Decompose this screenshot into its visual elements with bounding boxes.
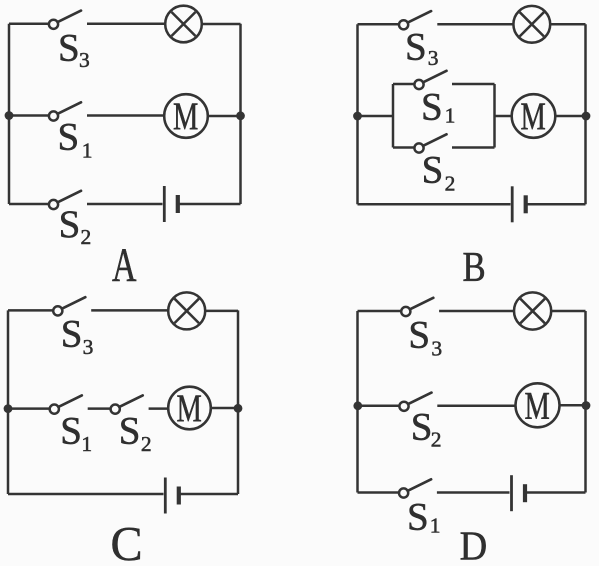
switch S1 (C): contact circle [50,405,59,414]
svg-text:S: S [58,116,80,159]
circuit B top branch: wire from S3 to lamp [437,23,513,26]
svg-text:S: S [407,495,429,538]
motor M (C): circle [168,387,211,430]
battery (A): long plate [163,186,166,222]
circuit C top branch: wire from S3 to lamp [91,309,168,312]
circuit B parallel bottom sub-branch: wire from S2 to box right [452,146,495,149]
lamp (B): cross stroke 1 [520,12,544,36]
switch S3 (B): arm blade [408,11,431,23]
junction node: circuit C right rail / middle branch [234,404,243,413]
switch S2 (B): contact circle [414,143,423,152]
svg-text:2: 2 [81,225,92,249]
circuit D middle branch: wire from left rail to switch S2 [358,405,400,408]
circuit C middle branch: wire between S1 and S2 [88,407,111,410]
circuit D top branch: wire from S3 to lamp [439,310,514,313]
junction node: circuit D left rail / middle branch [353,401,362,410]
svg-text:B: B [463,244,486,291]
svg-text:M: M [177,387,202,430]
circuit B middle branch: wire from motor to right rail [555,115,586,118]
circuit A bottom branch: wire from battery to right rail [178,203,241,206]
battery (C): long plate [164,478,167,514]
switch S2 (D): contact circle [399,402,408,411]
lamp (A): cross stroke 2 [172,12,196,36]
circuit A: left rail wire [8,24,11,204]
circuit A bottom branch: wire from left rail to switch S2 [9,203,49,206]
circuit B parallel top sub-branch: wire from S1 to box right [452,83,495,86]
switch S1 (B): contact circle [414,80,423,89]
circuit C top branch: wire from left rail to switch S3 [8,309,53,312]
lamp (A): cross stroke 1 [172,12,196,36]
circuit B parallel top sub-branch: wire to switch S1 [393,83,415,86]
motor M (A): circle [164,94,208,138]
lamp (B): circle [513,6,550,43]
svg-text:A: A [112,239,137,292]
switch S2 (B): arm blade [423,134,446,146]
svg-text:S: S [61,312,83,355]
switch S1 (A): contact circle [49,111,58,120]
lamp (D): cross stroke 1 [520,299,545,324]
circuit D bottom branch: wire from S1 to battery [437,491,510,494]
switch S1 (B): arm blade [423,71,446,83]
svg-text:S: S [421,86,443,129]
svg-text:S: S [405,25,427,68]
svg-text:2: 2 [431,428,442,452]
switch S1 (D): contact circle [399,488,408,497]
circuit D bottom branch: wire from battery to right rail [525,491,586,494]
svg-text:1: 1 [81,432,92,456]
lamp (C): cross stroke 2 [175,299,199,323]
circuit C bottom branch: wire from battery to right rail [179,493,238,496]
junction node: circuit B left rail / middle branch [353,112,362,121]
junction node: circuit C left rail / middle branch [4,404,13,413]
switch S1 (C): arm blade [58,395,81,407]
circuit A middle branch: wire from S1 to motor [87,114,164,117]
lamp (C): cross stroke 1 [175,299,199,323]
switch S3 (D): contact circle [401,307,410,316]
svg-text:S: S [408,313,430,356]
switch S3 (A): arm blade [58,11,81,23]
junction node: circuit A right rail / middle branch [236,111,245,120]
circuit D: right rail wire [584,311,587,493]
switch S1 (A): arm blade [58,102,81,114]
circuit B middle branch: wire from left rail to parallel box [358,115,394,118]
circuit B top branch: wire from left rail to switch S3 [358,23,400,26]
svg-text:S: S [59,203,81,246]
svg-text:3: 3 [83,335,94,359]
svg-text:1: 1 [430,513,441,537]
circuit B bottom branch: wire from left rail to battery [358,203,511,206]
svg-text:2: 2 [445,172,456,196]
svg-text:S: S [60,410,82,453]
lamp (D): cross stroke 2 [520,299,545,324]
svg-text:1: 1 [445,104,456,128]
svg-text:M: M [173,95,198,138]
circuit B parallel box: right vertical wire [493,84,496,148]
switch S3 (C): arm blade [62,297,85,309]
svg-text:1: 1 [82,138,93,162]
switch S3 (D): arm blade [410,298,433,310]
circuit D top branch: wire from left rail to switch S3 [358,310,402,313]
circuit D middle branch: wire from motor to right rail [560,404,586,407]
svg-text:S: S [422,149,444,192]
circuit C middle branch: wire from motor to right rail [211,407,238,410]
circuit B: left rail wire [356,24,359,204]
battery (B): long plate [511,186,514,222]
battery (B): short plate [524,195,528,213]
svg-text:M: M [521,95,546,138]
circuit A middle branch: wire from left rail to switch S1 [9,114,49,117]
motor M (B): circle [512,94,556,138]
switch S2 (C): contact circle [111,405,120,414]
lamp (C): circle [168,292,205,329]
svg-text:2: 2 [141,432,152,456]
switch S2 (D): arm blade [408,393,431,405]
circuit B bottom branch: wire from battery to right rail [526,203,586,206]
lamp (D): circle [514,292,551,329]
battery (D): long plate [510,475,513,511]
svg-text:3: 3 [428,46,439,70]
switch S3 (C): contact circle [53,306,62,315]
circuit A bottom branch: wire from S2 to battery [87,203,163,206]
circuit C: left rail wire [7,310,10,494]
circuit D bottom branch: wire from left rail to switch S1 [358,491,400,494]
svg-text:S: S [411,405,433,448]
switch S2 (A): contact circle [49,200,58,209]
circuit D middle branch: wire from S2 to motor [437,405,515,408]
circuit A top branch: wire from lamp to right rail [202,23,241,26]
lamp (A): circle [165,6,202,43]
svg-text:C: C [111,516,143,566]
circuit B middle branch: wire from box to motor [495,115,513,118]
svg-text:3: 3 [431,336,442,360]
circuit C bottom branch: wire from left rail to battery [8,493,164,496]
circuit D: left rail wire [356,311,359,493]
switch S1 (D): arm blade [408,479,431,491]
svg-text:S: S [58,27,80,70]
switch S3 (A): contact circle [49,20,58,29]
circuit B top branch: wire from lamp to right rail [550,23,585,26]
switch S2 (C): arm blade [119,395,142,407]
circuit D top branch: wire from lamp to right rail [551,310,585,313]
circuit B parallel box: left vertical wire [392,84,395,148]
switch S3 (B): contact circle [399,20,408,29]
circuit A top branch: wire from S3 to lamp [87,23,165,26]
battery (C): short plate [177,487,181,505]
junction node: circuit D right rail / middle branch [582,401,591,410]
circuit C: right rail wire [237,310,240,494]
svg-text:D: D [460,522,488,566]
circuit C middle branch: wire from left rail to switch S1 [8,407,50,410]
circuit B parallel bottom sub-branch: wire to switch S2 [393,146,415,149]
svg-text:3: 3 [79,48,90,72]
circuit A middle branch: wire from motor to right rail [208,115,241,118]
circuit C middle branch: wire from S2 to motor [149,407,169,410]
switch S2 (A): arm blade [58,191,81,203]
junction node: circuit B right rail / middle branch [582,112,591,121]
circuit C top branch: wire from lamp to right rail [205,310,238,313]
lamp (B): cross stroke 2 [520,12,544,36]
battery (D): short plate [523,484,527,502]
circuit A top branch: wire from left rail to switch S3 [9,23,49,26]
svg-text:S: S [119,410,141,453]
battery (A): short plate [176,195,180,213]
svg-text:M: M [525,384,550,427]
motor M (D): circle [516,383,560,427]
circuit B: right rail wire [584,24,587,204]
junction node: circuit A left rail / middle branch [5,111,14,120]
circuit A: right rail wire [239,24,242,204]
